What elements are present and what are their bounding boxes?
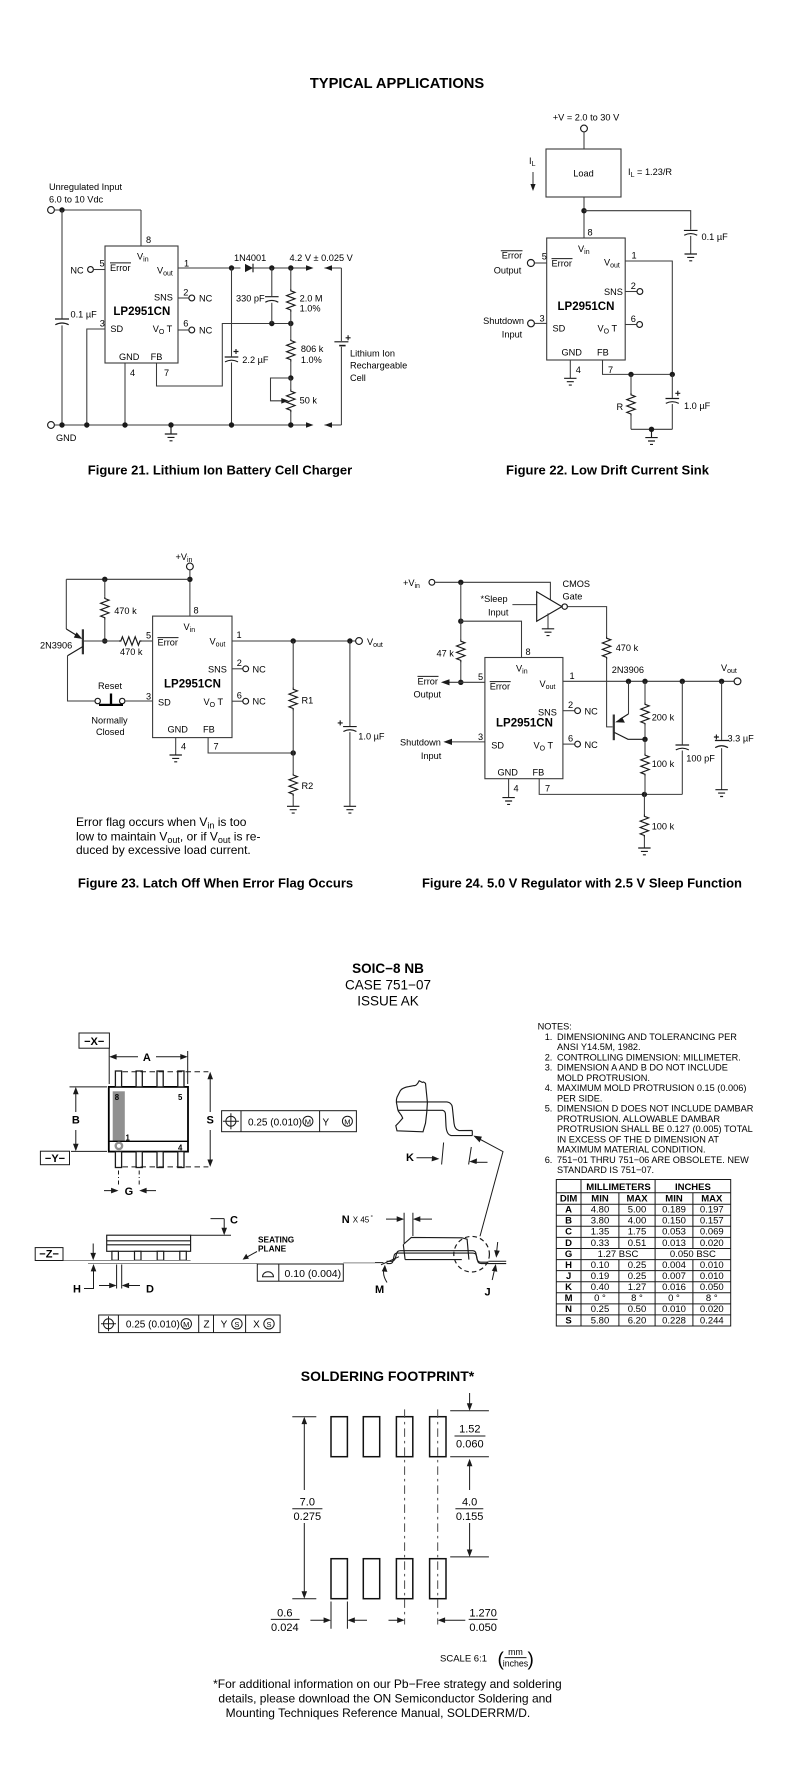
svg-text:K: K bbox=[406, 1152, 414, 1164]
wire terminal down to pin8 bbox=[189, 570, 191, 616]
svg-text:6: 6 bbox=[237, 690, 242, 700]
svg-text:5: 5 bbox=[146, 631, 151, 641]
svg-text:4: 4 bbox=[576, 365, 581, 375]
position symbol bbox=[226, 1116, 236, 1126]
svg-text:LP2951CN: LP2951CN bbox=[113, 306, 170, 318]
wire to pin 8 bbox=[461, 621, 522, 657]
op-amp U1 LP2951CN body bbox=[547, 238, 626, 360]
svg-text:2: 2 bbox=[237, 658, 242, 668]
svg-text:R2: R2 bbox=[302, 781, 314, 791]
ground symbol R2 bbox=[287, 806, 299, 813]
dashed S top line bbox=[123, 1071, 209, 1073]
body bottom strip line bbox=[109, 1140, 188, 1142]
svg-text:1.: 1. bbox=[545, 1032, 553, 1042]
transistor Q1 2N3906 bbox=[613, 715, 615, 741]
junction collector node bbox=[642, 737, 647, 742]
dim 7.0 vertical bbox=[292, 1417, 316, 1599]
svg-text:MAXIMUM MOLD PROTRUSION 0.15 (: MAXIMUM MOLD PROTRUSION 0.15 (0.006) bbox=[557, 1083, 746, 1093]
svg-text:Rechargeable: Rechargeable bbox=[350, 361, 407, 371]
pin1 dimple bbox=[116, 1143, 122, 1149]
junction error node bbox=[458, 680, 463, 685]
gnd terminal bbox=[48, 422, 55, 429]
op-amp U1 LP2951CN body bbox=[485, 658, 563, 779]
svg-text:M: M bbox=[183, 1320, 189, 1329]
svg-text:LP2951CN: LP2951CN bbox=[164, 679, 221, 691]
svg-text:0.6: 0.6 bbox=[277, 1607, 292, 1619]
pin 3 lead bbox=[534, 322, 546, 324]
pin 1 wire Vout bbox=[625, 261, 672, 374]
svg-text:NOTES:: NOTES: bbox=[538, 1022, 572, 1032]
svg-text:DIMENSION A AND B DO NOT INCLU: DIMENSION A AND B DO NOT INCLUDE bbox=[557, 1063, 728, 1073]
svg-text:2N3906: 2N3906 bbox=[40, 641, 72, 651]
svg-text:470 k: 470 k bbox=[120, 647, 143, 657]
ground symbol gate bbox=[542, 629, 554, 636]
svg-text:PROTRUSION. ALLOWABLE DAMBAR: PROTRUSION. ALLOWABLE DAMBAR bbox=[557, 1114, 720, 1124]
pin1 gray bar bbox=[113, 1091, 125, 1141]
dim 4.0 bbox=[450, 1556, 489, 1558]
supply terminal bbox=[187, 563, 194, 570]
svg-text:MIN: MIN bbox=[665, 1194, 683, 1205]
svg-text:H: H bbox=[565, 1260, 572, 1271]
junction Vin-cap bbox=[581, 208, 586, 213]
svg-text:5.: 5. bbox=[545, 1104, 553, 1114]
svg-text:1.0 µF: 1.0 µF bbox=[684, 401, 711, 411]
svg-text:CASE 751−07: CASE 751−07 bbox=[345, 978, 431, 993]
lead detail bent lead bbox=[396, 1102, 472, 1136]
svg-text:0.189: 0.189 bbox=[662, 1205, 686, 1216]
ground symbol cap bbox=[344, 806, 356, 813]
dim A arrows bbox=[113, 1056, 184, 1058]
resistor 47k bbox=[460, 582, 462, 639]
resistor R1 bbox=[292, 641, 294, 688]
pin 4 wire bbox=[175, 738, 177, 755]
svg-text:+Vin: +Vin bbox=[176, 552, 193, 564]
svg-text:0.25: 0.25 bbox=[628, 1260, 647, 1271]
svg-text:INCHES: INCHES bbox=[675, 1182, 711, 1193]
svg-text:D: D bbox=[146, 1283, 154, 1295]
pin 7 FB wire bbox=[208, 738, 293, 753]
junction rail cap1 bbox=[59, 422, 64, 427]
load box bbox=[546, 149, 621, 197]
svg-text:0.020: 0.020 bbox=[700, 1304, 724, 1315]
svg-text:6.: 6. bbox=[545, 1155, 553, 1165]
gate ground stub bbox=[547, 613, 549, 628]
svg-text:5: 5 bbox=[100, 259, 105, 269]
svg-text:SD: SD bbox=[553, 324, 566, 334]
svg-text:1: 1 bbox=[184, 259, 189, 269]
junction 47k-pin8 bbox=[458, 619, 463, 624]
svg-text:0.010: 0.010 bbox=[700, 1271, 724, 1282]
svg-text:Lithium Ion: Lithium Ion bbox=[350, 349, 395, 359]
svg-text:4.: 4. bbox=[545, 1083, 553, 1093]
svg-text:Cell: Cell bbox=[350, 373, 366, 383]
svg-text:0.157: 0.157 bbox=[700, 1216, 724, 1227]
svg-text:0.024: 0.024 bbox=[271, 1622, 299, 1634]
datum Z box bbox=[35, 1248, 63, 1261]
svg-text:6: 6 bbox=[183, 319, 188, 329]
svg-text:SNS: SNS bbox=[208, 664, 227, 674]
shutdown wire with arrow bbox=[449, 741, 485, 743]
svg-text:1.27: 1.27 bbox=[628, 1282, 647, 1293]
junction 470k top bbox=[102, 577, 107, 582]
ground symbol 3.3uF bbox=[715, 790, 727, 797]
ground symbol pin4 bbox=[502, 798, 514, 805]
svg-text:A: A bbox=[143, 1052, 151, 1064]
svg-text:Y: Y bbox=[322, 1117, 329, 1128]
svg-text:DIMENSION D DOES NOT INCLUDE D: DIMENSION D DOES NOT INCLUDE DAMBAR bbox=[557, 1104, 754, 1114]
wire input node down to cap bbox=[61, 210, 63, 318]
svg-text:Error: Error bbox=[502, 251, 522, 261]
svg-text:°: ° bbox=[371, 1216, 374, 1222]
svg-text:G: G bbox=[125, 1186, 134, 1198]
svg-text:NC: NC bbox=[253, 664, 267, 674]
error output terminal bbox=[527, 260, 534, 267]
pads bottom row bbox=[331, 1559, 446, 1599]
junction FB-divider bbox=[288, 321, 293, 326]
svg-text:0.050: 0.050 bbox=[469, 1622, 497, 1634]
svg-text:R1: R1 bbox=[302, 696, 314, 706]
top rail wire bbox=[66, 578, 190, 580]
ground symbol bbox=[165, 425, 177, 441]
svg-text:7: 7 bbox=[545, 784, 550, 794]
svg-text:SNS: SNS bbox=[538, 708, 557, 718]
svg-text:2N3906: 2N3906 bbox=[612, 665, 644, 675]
wire to bypass cap bbox=[584, 211, 691, 230]
svg-text:1.52: 1.52 bbox=[459, 1424, 480, 1436]
svg-text:B: B bbox=[72, 1115, 80, 1127]
svg-text:S: S bbox=[266, 1320, 271, 1329]
svg-text:5.80: 5.80 bbox=[591, 1315, 610, 1326]
junction FB node bbox=[642, 792, 647, 797]
svg-text:4.80: 4.80 bbox=[591, 1205, 610, 1216]
input terminal bbox=[48, 207, 55, 214]
junction Vout-cap node bbox=[229, 265, 234, 270]
svg-text:8 °: 8 ° bbox=[631, 1293, 643, 1304]
svg-text:H: H bbox=[73, 1283, 81, 1295]
svg-text:2: 2 bbox=[183, 287, 188, 297]
svg-text:MIN: MIN bbox=[591, 1194, 609, 1205]
svg-text:Y: Y bbox=[221, 1320, 228, 1331]
NC terminal pin2 bbox=[575, 708, 581, 714]
svg-text:2.2 µF: 2.2 µF bbox=[242, 355, 269, 365]
svg-text:8: 8 bbox=[115, 1093, 120, 1102]
ground symbol bottom bbox=[645, 429, 657, 444]
svg-text:−Y−: −Y− bbox=[45, 1153, 65, 1165]
junction FB-cap bbox=[670, 372, 675, 377]
svg-text:5: 5 bbox=[178, 1093, 183, 1102]
side view pins bbox=[112, 1251, 186, 1260]
svg-text:FB: FB bbox=[203, 725, 215, 735]
svg-text:FB: FB bbox=[533, 768, 545, 778]
capacitor 330pF bbox=[271, 268, 273, 296]
junction 100pF top bbox=[680, 679, 685, 684]
svg-text:SOLDERING FOOTPRINT*: SOLDERING FOOTPRINT* bbox=[301, 1368, 475, 1384]
svg-text:NC: NC bbox=[253, 697, 267, 707]
pin 1 wire Vout bbox=[232, 640, 356, 642]
svg-text:100 k: 100 k bbox=[652, 822, 675, 832]
svg-text:J: J bbox=[485, 1287, 491, 1299]
svg-text:8 °: 8 ° bbox=[706, 1293, 718, 1304]
svg-text:8: 8 bbox=[526, 647, 531, 657]
svg-text:0.004: 0.004 bbox=[662, 1260, 686, 1271]
dim J bbox=[488, 1260, 506, 1262]
svg-text:2.0 M: 2.0 M bbox=[300, 294, 323, 304]
svg-text:0 °: 0 ° bbox=[668, 1293, 680, 1304]
supply terminal bbox=[429, 579, 435, 585]
svg-text:0.016: 0.016 bbox=[662, 1282, 686, 1293]
side view body bbox=[107, 1235, 191, 1251]
junction bottom gnd bbox=[649, 427, 654, 432]
svg-text:6.20: 6.20 bbox=[628, 1315, 647, 1326]
svg-text:8: 8 bbox=[194, 606, 199, 616]
lead detail blob bbox=[396, 1081, 428, 1132]
svg-text:PLANE: PLANE bbox=[258, 1243, 287, 1253]
wire switch to pin3 bbox=[125, 700, 153, 702]
svg-text:0.020: 0.020 bbox=[700, 1238, 724, 1249]
op-amp U1 LP2951CN body bbox=[105, 246, 178, 363]
resistor 200k bbox=[644, 681, 646, 702]
seating plane line bbox=[63, 1260, 191, 1262]
svg-text:1: 1 bbox=[570, 671, 575, 681]
dim 1.52 bbox=[450, 1411, 489, 1457]
dim 1.270 bbox=[352, 1619, 401, 1621]
svg-text:Error: Error bbox=[418, 676, 438, 686]
wire sleep to gate bbox=[512, 604, 536, 606]
error output wire with arrow bbox=[446, 681, 485, 683]
svg-text:inches: inches bbox=[503, 1658, 529, 1668]
resistor 806k bbox=[290, 324, 292, 339]
svg-text:MAX: MAX bbox=[701, 1194, 723, 1205]
svg-text:duced by excessive load curren: duced by excessive load current. bbox=[76, 843, 251, 857]
svg-text:Shutdown: Shutdown bbox=[483, 316, 524, 326]
svg-text:X 45: X 45 bbox=[353, 1216, 370, 1225]
svg-text:1.75: 1.75 bbox=[628, 1227, 647, 1238]
svg-text:Shutdown: Shutdown bbox=[400, 738, 441, 748]
svg-text:3.3 µF: 3.3 µF bbox=[728, 734, 755, 744]
svg-text:CMOS: CMOS bbox=[563, 579, 591, 589]
inverter CMOS gate bbox=[537, 592, 562, 622]
svg-text:SNS: SNS bbox=[604, 287, 623, 297]
svg-text:Vout: Vout bbox=[721, 663, 737, 675]
svg-text:IL: IL bbox=[529, 156, 536, 168]
svg-text:0.197: 0.197 bbox=[700, 1205, 724, 1216]
svg-text:NC: NC bbox=[199, 294, 213, 304]
pot wiper wire bbox=[271, 378, 291, 401]
junction 330pF top bbox=[269, 265, 274, 270]
junction rail 50k bbox=[288, 422, 293, 427]
junction 47k top bbox=[458, 580, 463, 585]
svg-text:0.010: 0.010 bbox=[662, 1304, 686, 1315]
svg-text:A: A bbox=[565, 1205, 572, 1216]
svg-text:50 k: 50 k bbox=[300, 396, 318, 406]
bottom pins bbox=[115, 1152, 184, 1168]
svg-text:0.1 µF: 0.1 µF bbox=[702, 232, 729, 242]
junction 2.0M top bbox=[288, 265, 293, 270]
svg-text:47 k: 47 k bbox=[437, 649, 455, 659]
wire load to Vin bbox=[583, 197, 585, 238]
detail circle dashed bbox=[454, 1236, 490, 1272]
svg-text:S: S bbox=[565, 1315, 571, 1326]
NC terminal pin2 bbox=[243, 666, 249, 672]
svg-text:0.40: 0.40 bbox=[591, 1282, 610, 1293]
svg-text:Figure 24. 5.0 V Regulator wit: Figure 24. 5.0 V Regulator with 2.5 V Sl… bbox=[422, 876, 742, 891]
capacitor 0.1uF bbox=[684, 230, 698, 235]
top pins bbox=[115, 1071, 184, 1087]
junction 3.3uF top bbox=[719, 679, 724, 684]
NC terminal pin6 bbox=[637, 322, 643, 328]
ground symbol 100k bbox=[638, 848, 650, 855]
pin 1 wire Vout bbox=[563, 680, 734, 682]
svg-text:0.244: 0.244 bbox=[700, 1315, 724, 1326]
svg-text:FB: FB bbox=[151, 352, 163, 362]
pin 6 lead VO T bbox=[625, 324, 636, 326]
dim C bbox=[191, 1219, 231, 1236]
Vout terminal bbox=[356, 638, 363, 645]
svg-text:STANDARD IS 751−07.: STANDARD IS 751−07. bbox=[557, 1165, 654, 1175]
dim B extension lines bbox=[70, 1087, 108, 1152]
diode D1 1N4001 bbox=[245, 264, 253, 272]
wire cap to gnd rail bbox=[61, 325, 63, 425]
svg-text:3: 3 bbox=[478, 732, 483, 742]
svg-text:Gate: Gate bbox=[563, 592, 583, 602]
right side view body bbox=[403, 1237, 469, 1259]
body top view bbox=[109, 1087, 188, 1152]
NC terminal pin5 bbox=[88, 267, 94, 273]
svg-text:Figure 22. Low Drift Current S: Figure 22. Low Drift Current Sink bbox=[506, 463, 710, 478]
svg-text:0.10: 0.10 bbox=[591, 1260, 610, 1271]
pin 4 wire bbox=[569, 360, 571, 378]
NC terminal pin6 bbox=[243, 698, 249, 704]
svg-text:7.0: 7.0 bbox=[300, 1497, 315, 1509]
pin 6 lead bbox=[232, 700, 243, 702]
svg-text:4: 4 bbox=[181, 742, 186, 752]
svg-text:3.80: 3.80 bbox=[591, 1216, 610, 1227]
svg-text:DIMENSIONING AND TOLERANCING P: DIMENSIONING AND TOLERANCING PER bbox=[557, 1032, 737, 1042]
pin 5 lead bbox=[94, 269, 105, 271]
measure arrows 4.2V top bbox=[306, 265, 314, 271]
svg-text:+Vin: +Vin bbox=[403, 578, 420, 590]
junction cap top bbox=[347, 638, 352, 643]
svg-text:MOLD PROTRUSION.: MOLD PROTRUSION. bbox=[557, 1073, 650, 1083]
svg-text:MILLIMETERS: MILLIMETERS bbox=[586, 1182, 650, 1193]
svg-text:GND: GND bbox=[56, 433, 77, 443]
svg-text:N: N bbox=[565, 1304, 572, 1315]
NC terminal pin6 bbox=[575, 741, 581, 747]
capacitor 1.0uF bbox=[671, 374, 673, 398]
svg-text:1.0%: 1.0% bbox=[301, 355, 322, 365]
svg-text:Load: Load bbox=[573, 169, 593, 179]
svg-text:Error flag occurs when Vin is: Error flag occurs when Vin is too bbox=[76, 815, 247, 830]
svg-text:0.050 BSC: 0.050 BSC bbox=[670, 1249, 716, 1260]
svg-text:K: K bbox=[565, 1282, 572, 1293]
wire input to Vin drop bbox=[55, 209, 142, 211]
svg-text:M: M bbox=[305, 1117, 311, 1126]
svg-text:0.010: 0.010 bbox=[700, 1260, 724, 1271]
capacitor 100pF bbox=[681, 681, 683, 744]
capacitor 1.0uF bbox=[349, 641, 351, 726]
svg-text:1: 1 bbox=[632, 251, 637, 261]
svg-text:1.27 BSC: 1.27 BSC bbox=[598, 1249, 639, 1260]
svg-text:3: 3 bbox=[146, 692, 151, 702]
svg-text:8: 8 bbox=[588, 228, 593, 238]
svg-text:DIM: DIM bbox=[560, 1194, 578, 1205]
Vout terminal bbox=[734, 678, 741, 685]
svg-text:3.: 3. bbox=[545, 1063, 553, 1073]
op-amp U1 LP2951CN body bbox=[153, 616, 232, 738]
svg-text:IN EXCESS OF THE D DIMENSION A: IN EXCESS OF THE D DIMENSION AT bbox=[557, 1134, 719, 1144]
svg-text:0.25 (0.010): 0.25 (0.010) bbox=[248, 1117, 302, 1128]
svg-text:Closed: Closed bbox=[96, 727, 125, 737]
svg-text:Input: Input bbox=[488, 608, 509, 618]
gate output wire bbox=[568, 607, 607, 637]
svg-text:MAX: MAX bbox=[626, 1194, 648, 1205]
svg-text:0.069: 0.069 bbox=[700, 1227, 724, 1238]
capacitor C 0.1uF bbox=[55, 319, 69, 325]
junction supply node bbox=[187, 577, 192, 582]
svg-text:5: 5 bbox=[478, 672, 483, 682]
svg-text:0.25 (0.010): 0.25 (0.010) bbox=[126, 1320, 180, 1331]
junction rail sd bbox=[84, 422, 89, 427]
pin 6 lead bbox=[563, 743, 575, 745]
svg-text:M: M bbox=[344, 1117, 350, 1126]
ground symbol pin4 bbox=[170, 755, 182, 762]
pin 7 FB wire bbox=[603, 360, 673, 374]
resistor 2.0M bbox=[290, 268, 292, 289]
wire cap to gnd bbox=[690, 236, 692, 254]
resistor R bbox=[630, 374, 632, 393]
svg-text:Unregulated Input: Unregulated Input bbox=[49, 182, 122, 192]
svg-text:details, please download the O: details, please download the ON Semicond… bbox=[218, 1691, 552, 1705]
resistor 470k bbox=[602, 636, 610, 659]
svg-text:5: 5 bbox=[542, 252, 547, 262]
wire 470k to base bbox=[607, 658, 613, 727]
svg-text:NC: NC bbox=[70, 265, 84, 275]
leader arrow to foot bbox=[473, 1136, 482, 1143]
svg-text:4: 4 bbox=[514, 784, 519, 794]
svg-text:7: 7 bbox=[164, 368, 169, 378]
svg-text:2.: 2. bbox=[545, 1052, 553, 1062]
svg-text:SNS: SNS bbox=[154, 293, 173, 303]
svg-text:*Sleep: *Sleep bbox=[481, 594, 508, 604]
dashed center lines bbox=[405, 1409, 438, 1624]
svg-text:Normally: Normally bbox=[91, 716, 128, 726]
dim D bbox=[117, 1265, 122, 1289]
datum Y box bbox=[40, 1151, 69, 1165]
svg-text:): ) bbox=[528, 1650, 534, 1671]
svg-text:1.270: 1.270 bbox=[469, 1607, 497, 1619]
svg-text:200 k: 200 k bbox=[652, 713, 675, 723]
svg-text:0.150: 0.150 bbox=[662, 1216, 686, 1227]
flatness frame bbox=[257, 1264, 343, 1281]
measure arrows 4.2V bottom bbox=[306, 422, 314, 428]
junction base node bbox=[102, 638, 107, 643]
svg-text:FB: FB bbox=[597, 348, 609, 358]
svg-text:Reset: Reset bbox=[98, 681, 122, 691]
svg-text:0.50: 0.50 bbox=[628, 1304, 647, 1315]
ground symbol pin4 bbox=[564, 378, 576, 385]
svg-text:470 k: 470 k bbox=[114, 606, 137, 616]
NC terminal pin6 bbox=[189, 327, 195, 333]
emitter wire left bbox=[65, 579, 67, 629]
svg-text:1.0 µF: 1.0 µF bbox=[358, 732, 385, 742]
svg-text:J: J bbox=[566, 1271, 571, 1282]
collector wire to switch bbox=[68, 656, 96, 701]
svg-text:Input: Input bbox=[502, 330, 523, 340]
svg-text:PER SIDE.: PER SIDE. bbox=[557, 1093, 602, 1103]
svg-text:GND: GND bbox=[168, 725, 189, 735]
svg-text:+V = 2.0 to 30 V: +V = 2.0 to 30 V bbox=[553, 113, 620, 123]
junction rail 2.2uF bbox=[229, 422, 234, 427]
